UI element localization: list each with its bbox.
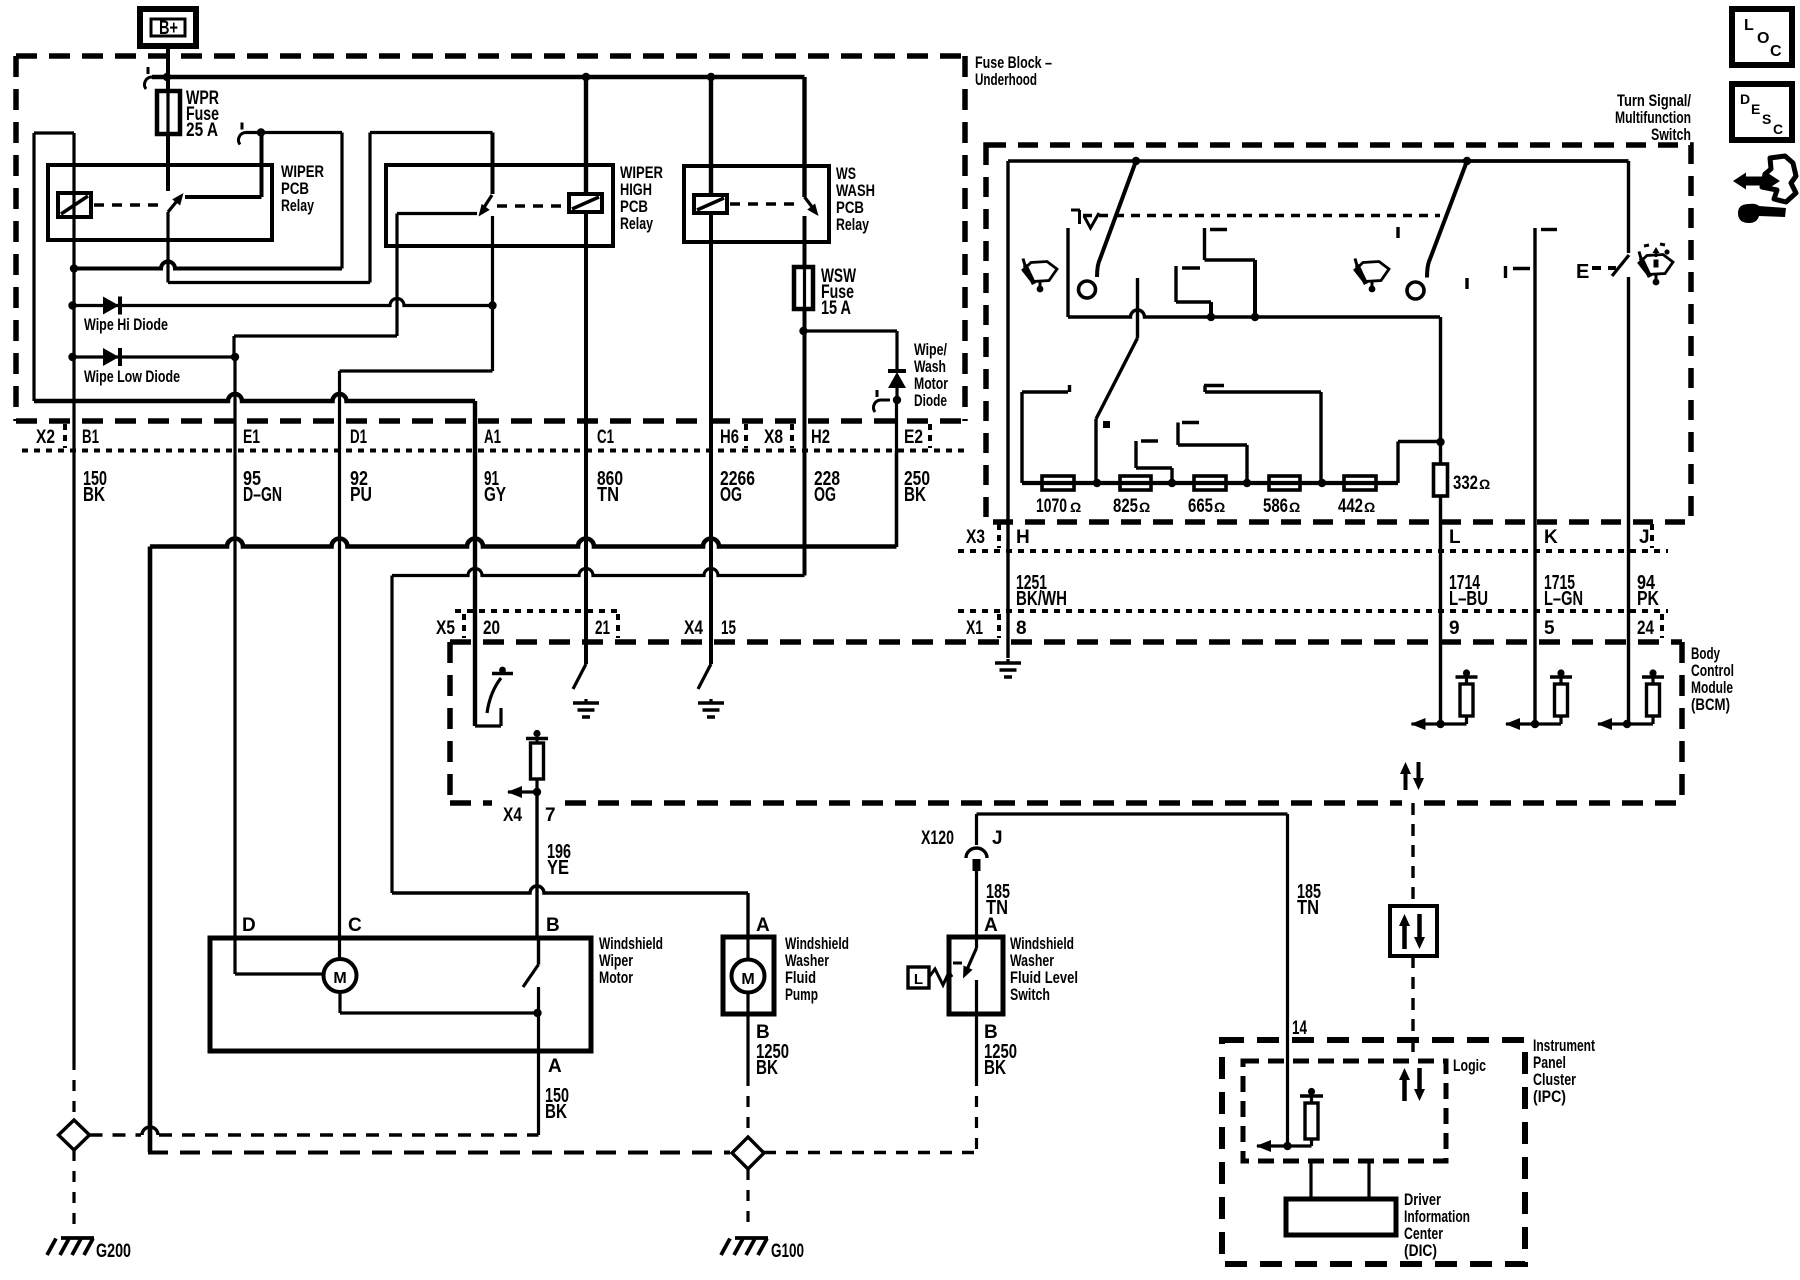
svg-text:442: 442 — [1338, 496, 1363, 517]
svg-text:Logic: Logic — [1453, 1056, 1486, 1075]
svg-text:L: L — [914, 971, 923, 988]
windshield washer fluid pump box — [723, 937, 774, 1014]
svg-text:BK: BK — [83, 484, 105, 506]
IPC dashed box — [1222, 1040, 1525, 1264]
svg-text:OG: OG — [720, 484, 742, 506]
power terminal B+ — [140, 9, 196, 46]
connector row X2 dashed top — [16, 418, 965, 424]
svg-text:20: 20 — [483, 618, 500, 639]
relay K2 fixed contact bar — [397, 212, 477, 215]
svg-text:Relay: Relay — [836, 215, 869, 234]
node B+ bus junction — [163, 73, 171, 81]
svg-text:G200: G200 — [96, 1241, 131, 1262]
wire relay K1 loop bottom (hop over pivot wire) — [74, 262, 342, 269]
wire 250 left drop — [148, 547, 153, 1153]
switch park (pin 20) — [475, 724, 501, 727]
wire relay K3 feeds — [584, 77, 588, 194]
splice hook at B+ junction — [152, 76, 161, 79]
svg-text:A1: A1 — [484, 427, 501, 448]
relay K1 fixed contact bar — [185, 195, 262, 199]
svg-text:H: H — [1016, 527, 1030, 548]
contact step A — [1203, 228, 1206, 260]
splice S G200 diamond — [59, 1120, 90, 1150]
wire 185 to level switch — [977, 812, 1288, 815]
svg-text:Switch: Switch — [1010, 985, 1050, 1004]
svg-text:332: 332 — [1453, 473, 1478, 494]
connector row X5/X4 dotted top — [455, 609, 618, 613]
wire left loop down — [32, 133, 35, 401]
svg-text:B1: B1 — [82, 427, 99, 448]
ladder stub 1 — [1020, 392, 1023, 483]
wire K2 pivot to Hi diode — [491, 216, 494, 306]
svg-text:E: E — [1576, 261, 1589, 283]
resistor termination X4-7 — [533, 730, 540, 737]
svg-text:Ω: Ω — [1214, 499, 1225, 515]
resistor ladder bus — [1022, 481, 1398, 485]
resistor 442 — [1344, 476, 1376, 490]
connector X5 separators — [462, 614, 466, 638]
svg-text:E1: E1 — [243, 427, 260, 448]
wire 250 to splice line — [148, 1151, 730, 1155]
svg-text:BK: BK — [756, 1057, 778, 1079]
wire relay K1 pivot down — [166, 212, 169, 283]
wire feed bottom loop y401 — [34, 394, 475, 401]
relay coil K1 — [58, 193, 91, 217]
wire relay K1 feed loop top — [246, 131, 342, 134]
svg-text:Ω: Ω — [1139, 499, 1150, 515]
switch dotted link — [1083, 214, 1440, 218]
svg-text:L: L — [1449, 527, 1461, 548]
resistor termination IPC 185 — [1283, 1142, 1291, 1150]
svg-text:(BCM): (BCM) — [1691, 695, 1730, 714]
wire washer feed to pump — [392, 886, 748, 893]
svg-text:M: M — [741, 971, 754, 988]
wire relay K2 contact down — [395, 214, 398, 337]
wire 250 E2 down — [895, 400, 898, 547]
svg-text:A: A — [548, 1056, 562, 1077]
svg-text:J: J — [992, 828, 1003, 849]
svg-text:H6: H6 — [720, 427, 739, 448]
wire relay K2 blade feed top — [370, 131, 493, 134]
svg-text:BK: BK — [545, 1101, 567, 1123]
serial data arrows IPC — [1402, 1076, 1407, 1101]
svg-text:Ω: Ω — [1479, 476, 1490, 492]
svg-text:(IPC): (IPC) — [1533, 1087, 1566, 1106]
ladder output link — [1396, 442, 1399, 484]
svg-text:L–GN: L–GN — [1544, 588, 1583, 610]
washer icon — [1639, 255, 1673, 275]
svg-text:5: 5 — [1544, 618, 1555, 639]
relay coil K2 dashed link — [497, 204, 566, 207]
svg-text:TN: TN — [1297, 897, 1319, 919]
wire link to D1 — [340, 369, 493, 372]
svg-text:C: C — [1773, 121, 1783, 137]
svg-text:D: D — [242, 915, 256, 936]
svg-text:X2: X2 — [36, 427, 55, 448]
wire pin 20 into BCM — [473, 641, 476, 726]
serial data arrows BCM — [1404, 770, 1408, 790]
ladder stub 2 — [1204, 384, 1224, 387]
wiper mode arm — [1097, 161, 1136, 277]
wire 1714 L with 332 resistor — [1439, 317, 1442, 464]
svg-text:Ω: Ω — [1070, 499, 1081, 515]
icon LOC — [1732, 9, 1792, 65]
switch top bus — [1008, 159, 1629, 162]
fuse block underhood dashed border — [16, 53, 965, 59]
svg-text:Motor: Motor — [599, 968, 633, 987]
svg-text:Relay: Relay — [620, 214, 653, 233]
wire B1 top corner — [34, 131, 74, 134]
wire 1715 K — [1533, 228, 1536, 724]
serial data gateway box — [1390, 906, 1437, 956]
resistor 1070 — [1042, 476, 1074, 490]
wire relay K3 contact down to fuse — [803, 216, 807, 267]
svg-text:M: M — [333, 970, 346, 987]
wire coil K3 down to H6 — [709, 213, 713, 664]
icon DESC — [1732, 84, 1792, 140]
level sensor L — [908, 967, 929, 988]
svg-text:C: C — [1770, 43, 1782, 60]
level switch internals — [975, 937, 978, 948]
svg-text:YE: YE — [547, 857, 569, 879]
svg-text:L–BU: L–BU — [1449, 588, 1488, 610]
svg-text:15 A: 15 A — [821, 298, 851, 319]
svg-text:24: 24 — [1637, 618, 1654, 639]
IPC logic dashed box — [1243, 1061, 1446, 1161]
svg-text:B: B — [546, 915, 560, 936]
motor M — [233, 938, 236, 974]
icon hand/arrows — [1762, 156, 1796, 202]
svg-text:X4: X4 — [503, 805, 522, 826]
svg-text:E: E — [1751, 101, 1760, 117]
relay coil K2 — [569, 194, 602, 212]
wire fuse to relay common — [166, 134, 170, 191]
ladder stub 4 — [1141, 439, 1158, 442]
connector X2 separators — [63, 424, 67, 448]
delay icon — [1071, 209, 1080, 212]
switch left rail — [1066, 228, 1069, 317]
relay box WS WASH PCB Relay — [684, 166, 829, 242]
wire pin 15 switch to ground — [709, 641, 712, 664]
svg-text:H2: H2 — [811, 427, 830, 448]
relay box WIPER HIGH PCB Relay — [386, 165, 613, 246]
svg-text:25 A: 25 A — [186, 120, 218, 141]
svg-text:X3: X3 — [966, 527, 985, 548]
windshield wiper motor box — [210, 938, 591, 1051]
svg-text:Ω: Ω — [1364, 499, 1375, 515]
ground lead G200 — [72, 1150, 75, 1232]
motor park switch — [537, 938, 540, 965]
svg-text:L: L — [1744, 17, 1754, 34]
svg-text:Pump: Pump — [785, 985, 818, 1004]
relay coil K3 dashed link — [730, 202, 800, 205]
svg-text:Switch: Switch — [1651, 125, 1691, 144]
svg-text:C: C — [348, 915, 362, 936]
svg-text:825: 825 — [1113, 496, 1138, 517]
ladder selector — [1136, 278, 1139, 338]
svg-text:(DIC): (DIC) — [1404, 1241, 1437, 1260]
svg-text:A: A — [984, 915, 998, 936]
contact bars mid — [1504, 266, 1507, 278]
resistor termination pin 24 — [1623, 720, 1631, 728]
svg-text:BK: BK — [904, 484, 926, 506]
relay K1 blade — [168, 196, 181, 212]
svg-text:X1: X1 — [966, 618, 983, 639]
svg-text:D–GN: D–GN — [243, 484, 282, 506]
wire Hi diode link down — [491, 306, 494, 372]
wire relay K1 contact feed — [260, 133, 264, 197]
wire WSW fuse down — [803, 309, 807, 576]
BCM dashed border — [450, 639, 1682, 645]
wire B+ feed down — [166, 46, 170, 91]
relay K3 blade — [805, 197, 817, 212]
svg-text:15: 15 — [721, 618, 736, 639]
wire relay K1 pivot to K2 loop — [168, 281, 370, 284]
wire J from switch — [1467, 159, 1629, 162]
intermittent arm — [1427, 161, 1467, 278]
relay coil K3 — [694, 195, 727, 213]
svg-text:B: B — [984, 1022, 998, 1043]
svg-text:X4: X4 — [684, 618, 703, 639]
wire K2 contact to E1 — [234, 334, 397, 337]
svg-text:A: A — [756, 915, 770, 936]
DIC box — [1309, 1161, 1312, 1199]
svg-text:PU: PU — [350, 484, 372, 506]
svg-text:B: B — [756, 1022, 770, 1043]
svg-text:Ω: Ω — [1289, 499, 1300, 515]
svg-text:D1: D1 — [350, 427, 367, 448]
svg-text:X120: X120 — [921, 828, 954, 849]
splice dashed link G200 — [90, 1133, 142, 1136]
wire circuit 150 B1 main — [72, 133, 75, 1059]
svg-text:J: J — [1639, 527, 1650, 548]
diode Wipe Low — [68, 353, 76, 361]
contact step B — [1174, 266, 1177, 302]
resistor termination pin 5 — [1531, 720, 1539, 728]
wire 228 bus — [392, 569, 805, 576]
splice hook diode/E2 — [881, 399, 890, 402]
ladder stub 3 — [1182, 421, 1199, 424]
wire 185 to IPC — [1286, 814, 1289, 1146]
resistor termination pin 9 — [1436, 720, 1444, 728]
fuse WPR 25A — [157, 91, 180, 134]
inline connector X120-J — [966, 848, 987, 858]
svg-text:OG: OG — [814, 484, 836, 506]
svg-text:Diode: Diode — [914, 391, 947, 410]
relay coil dashed link — [94, 203, 162, 206]
switch low bus — [1068, 310, 1440, 317]
svg-text:G100: G100 — [771, 1241, 804, 1262]
svg-text:14: 14 — [1292, 1018, 1307, 1039]
svg-text:X5: X5 — [436, 618, 455, 639]
ground lead G100 — [746, 1169, 749, 1232]
svg-text:Wipe Low Diode: Wipe Low Diode — [84, 367, 180, 386]
svg-text:E2: E2 — [904, 427, 923, 448]
turn signal multifunction switch dashed box — [986, 145, 1691, 522]
wire 92 D1 down — [338, 401, 341, 938]
svg-text:GY: GY — [484, 484, 506, 506]
fuse WSW 15A — [794, 267, 813, 309]
svg-text:Relay: Relay — [281, 196, 314, 215]
wire 250 bus (thick) — [150, 539, 897, 547]
svg-text:586: 586 — [1263, 496, 1288, 517]
wire diode branch — [804, 329, 898, 332]
resistor 665 — [1194, 476, 1226, 490]
wire 150 BK dashed to splice — [72, 1059, 75, 1119]
resistor 825 — [1120, 476, 1151, 490]
splice S G100 diamond — [732, 1137, 764, 1169]
splice hook relay K1 feed — [246, 131, 255, 134]
diode Wipe/Wash Motor — [888, 372, 906, 388]
wire top feed bus — [152, 75, 805, 80]
svg-text:21: 21 — [595, 618, 610, 639]
svg-text:TN: TN — [597, 484, 619, 506]
svg-text:K: K — [1544, 527, 1558, 548]
wire coil K2 down to C1 — [584, 212, 588, 664]
svg-text:PK: PK — [1637, 588, 1659, 610]
wire pin 21 switch to ground — [584, 641, 587, 664]
relay K2 blade — [481, 195, 492, 212]
wire 95 E1 down — [233, 357, 236, 938]
svg-text:BK/WH: BK/WH — [1016, 588, 1067, 610]
windshield washer fluid level switch box — [949, 937, 1003, 1014]
svg-text:S: S — [1762, 111, 1771, 127]
svg-text:1070: 1070 — [1036, 496, 1067, 517]
svg-text:X8: X8 — [764, 427, 783, 448]
svg-text:Wipe Hi Diode: Wipe Hi Diode — [84, 315, 168, 334]
wire 1251 H common — [1006, 161, 1009, 658]
diode Wipe Hi — [68, 301, 76, 309]
wiper icon right — [1355, 262, 1389, 282]
svg-text:7: 7 — [545, 805, 556, 826]
svg-text:D: D — [1740, 91, 1750, 107]
connector row X1 dotted top — [958, 609, 1668, 613]
wire relay K1 loop right — [340, 133, 343, 269]
svg-text:Underhood: Underhood — [975, 70, 1037, 89]
wire 196 X4-7 down — [535, 792, 538, 938]
wiper icon left — [1023, 262, 1057, 282]
resistor 586 — [1269, 476, 1300, 490]
svg-text:O: O — [1757, 30, 1769, 47]
wire 91 A1 feed down — [473, 401, 477, 726]
svg-text:9: 9 — [1449, 618, 1460, 639]
connector row X2 dotted bottom — [22, 449, 965, 453]
relay box WIPER PCB Relay — [48, 165, 272, 240]
svg-text:665: 665 — [1188, 496, 1213, 517]
svg-text:BK: BK — [984, 1057, 1006, 1079]
connector row X3 dotted bottom — [958, 549, 1668, 553]
svg-text:C1: C1 — [597, 427, 614, 448]
wire 150 motor A — [537, 1013, 540, 1135]
svg-text:8: 8 — [1016, 618, 1027, 639]
serial data dashed to IPC — [1411, 803, 1414, 906]
svg-text:B+: B+ — [159, 18, 178, 39]
